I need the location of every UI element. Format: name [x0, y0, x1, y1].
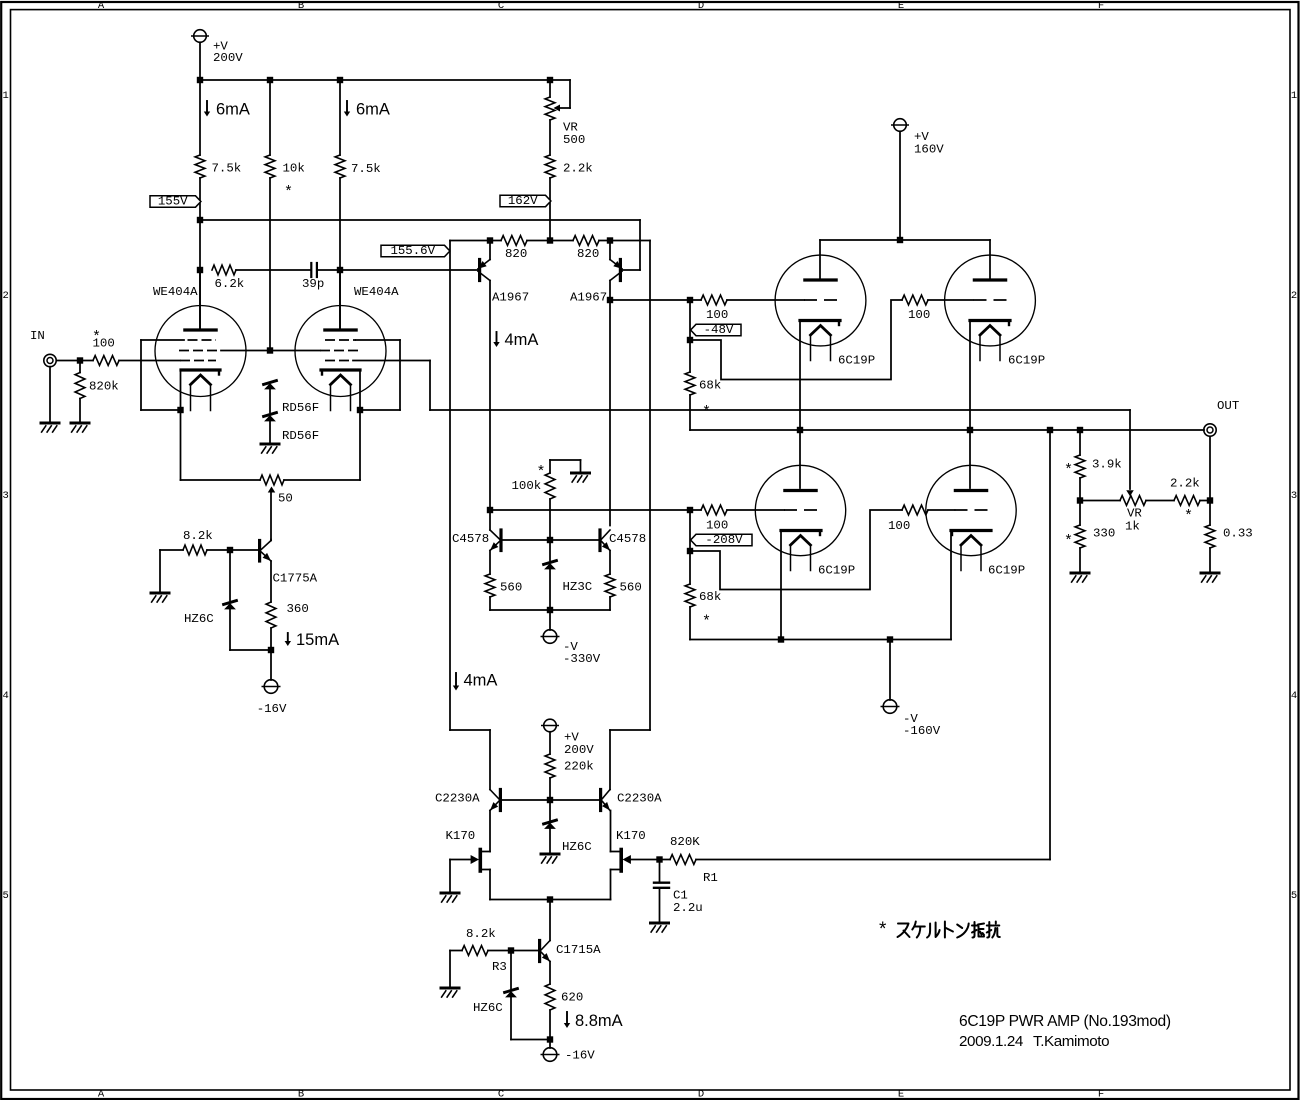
- node junction 690,300: [687, 297, 693, 303]
- resistor 330: [1079, 501, 1081, 526]
- svg-text:8.2k: 8.2k: [466, 927, 496, 941]
- power terminal -16V left: [270, 650, 272, 680]
- svg-text:820: 820: [505, 247, 527, 261]
- node junction at 550,80: [547, 77, 553, 83]
- tube1 grid g1 row: [180, 360, 216, 362]
- wire +160V plate rail: [820, 239, 990, 241]
- svg-text:100: 100: [888, 519, 910, 533]
- wire +200V rail: [200, 79, 550, 81]
- resistor 7.5k right: [335, 155, 345, 178]
- ground under C1: [651, 922, 669, 925]
- wire upper-right cathode to output node: [969, 322, 971, 430]
- svg-text:68k: 68k: [699, 590, 721, 604]
- wire emitter row y=240: [450, 240, 501, 242]
- node junction 550,899: [547, 896, 553, 902]
- node junction 550,1039: [547, 1036, 553, 1042]
- tube 6C19P upper-right grid: [974, 299, 1007, 301]
- svg-text:*: *: [537, 464, 546, 481]
- feedback line y=410 to VR wiper: [430, 409, 1130, 411]
- svg-text:560: 560: [620, 581, 642, 595]
- transistor A1967 left: [489, 241, 491, 260]
- ground at 820k: [71, 422, 89, 425]
- tube1 g3-cathode bracket: [140, 340, 142, 410]
- wire OUT jack down: [1209, 437, 1211, 526]
- wire A1967 right collector: [609, 281, 611, 526]
- tube2 grid g3 row: [325, 339, 356, 341]
- wire A1967 left collector: [489, 281, 491, 511]
- voltage flag 162V: [500, 195, 551, 206]
- wire 100 to lower-right tube grid: [928, 509, 955, 511]
- svg-text:360: 360: [287, 602, 309, 616]
- svg-text:HZ6C: HZ6C: [562, 840, 592, 854]
- svg-text:*: *: [1184, 508, 1193, 525]
- svg-text:F: F: [1098, 1089, 1104, 1100]
- capacitor C1 2.2u: [659, 860, 661, 882]
- resistor 0.33: [1205, 525, 1215, 548]
- node junction tube1 cathode 180,410: [177, 407, 183, 413]
- tube 6C19P upper-right plate: [989, 240, 991, 278]
- svg-text:6C19P PWR AMP (No.193mod): 6C19P PWR AMP (No.193mod): [959, 1013, 1171, 1030]
- svg-text:4: 4: [2, 690, 8, 702]
- wire zeners to ground: [269, 390, 271, 413]
- svg-text:4: 4: [1291, 690, 1297, 702]
- svg-text:-160V: -160V: [903, 724, 941, 738]
- transistor C4578 left: [489, 510, 491, 530]
- svg-text:2.2k: 2.2k: [1170, 477, 1200, 491]
- svg-text:C4578: C4578: [452, 532, 489, 546]
- tube WE404A right envelope: [295, 306, 386, 397]
- svg-text:A1967: A1967: [492, 291, 529, 305]
- zener RD56F upper: [264, 381, 277, 385]
- node junction 550,800: [547, 797, 553, 803]
- tube 6C19P lower-left plate: [799, 430, 801, 488]
- tube 6C19P lower-right cathode: [951, 529, 991, 532]
- svg-text:15mA: 15mA: [296, 631, 339, 649]
- voltage flag 155V: [150, 196, 201, 207]
- svg-text:C: C: [498, 0, 504, 12]
- ground for 100k: [572, 472, 590, 475]
- node junction 659,859 feedback input: [656, 856, 662, 862]
- resistor 220k: [545, 754, 555, 778]
- zener HZ6C mid: [549, 800, 551, 820]
- power terminal +V 160V: [894, 119, 907, 132]
- voltage flag -48V: [691, 324, 741, 335]
- tube 6C19P upper-right envelope: [945, 255, 1036, 346]
- svg-text:2.2u: 2.2u: [673, 901, 703, 915]
- svg-text:50: 50: [278, 492, 293, 506]
- tube 6C19P lower-right grid: [955, 509, 988, 511]
- transistor C1775A: [258, 541, 261, 562]
- svg-text:HZ3C: HZ3C: [563, 580, 593, 594]
- wire base rail y=800: [502, 799, 599, 801]
- resistor 820 left: [501, 236, 527, 246]
- tube2 grid g1 row: [325, 360, 353, 362]
- output jack OUT: [1204, 424, 1216, 436]
- wire y=510 row from A1967 left collector: [490, 509, 701, 511]
- wire output node to feedback resistor: [1049, 430, 1051, 860]
- svg-text:100: 100: [908, 308, 930, 322]
- transistor A1967 right: [609, 241, 611, 260]
- current annotation 4mA lower: [455, 673, 457, 685]
- wire 100 to upper-left tube grid: [727, 299, 804, 301]
- svg-text:5: 5: [1291, 890, 1297, 902]
- current annotation 8.8mA: [566, 1012, 568, 1023]
- ground for 8.2k lower: [449, 951, 451, 989]
- svg-text:K170: K170: [446, 829, 476, 843]
- wire upper-left cathode to output node: [799, 322, 801, 430]
- svg-text:7.5k: 7.5k: [212, 162, 242, 176]
- power terminal -V -330V: [549, 610, 551, 630]
- node junction 230,550: [227, 547, 233, 553]
- svg-text:D: D: [698, 1089, 704, 1100]
- svg-text:4mA: 4mA: [464, 672, 498, 690]
- svg-text:1k: 1k: [1125, 520, 1140, 534]
- svg-text:3.9k: 3.9k: [1092, 458, 1122, 472]
- tube 6C19P lower-right envelope: [926, 465, 1016, 555]
- tube2 heater: [331, 375, 351, 385]
- svg-text:2: 2: [1291, 290, 1297, 302]
- wire C4578 base rail y=540: [502, 539, 599, 541]
- svg-text:*: *: [702, 614, 711, 631]
- resistor 8.2k tube bias: [160, 549, 183, 551]
- svg-text:620: 620: [561, 991, 583, 1005]
- svg-text:IN: IN: [30, 329, 45, 343]
- svg-text:C: C: [498, 1089, 504, 1100]
- svg-text:155.6V: 155.6V: [390, 244, 435, 258]
- wire K170 sources rail y=899: [489, 870, 491, 900]
- svg-text:39p: 39p: [302, 277, 324, 291]
- resistor 100 lower-left grid: [701, 505, 727, 515]
- node junction 511,950: [508, 947, 514, 953]
- resistor 360: [270, 561, 272, 602]
- wire C2230A right emitter to K170 drain: [610, 811, 612, 852]
- tube1 grid g2 row: [179, 350, 221, 352]
- svg-text:155V: 155V: [158, 195, 188, 209]
- svg-text:-48V: -48V: [704, 323, 734, 337]
- wire to A1967 left base: [340, 269, 478, 271]
- power terminal +V 200V mid: [544, 719, 557, 732]
- svg-text:HZ6C: HZ6C: [473, 1001, 503, 1015]
- svg-text:B: B: [298, 1089, 304, 1100]
- power terminal -V -160V: [889, 640, 891, 701]
- wire -48V node x=690: [689, 300, 691, 372]
- svg-text:2: 2: [2, 290, 8, 302]
- wire C1775A collector from pot: [270, 539, 272, 541]
- wire cathode row y=480: [181, 479, 261, 481]
- svg-text:2009.1.24: 2009.1.24: [959, 1033, 1023, 1050]
- svg-text:*: *: [1064, 533, 1073, 550]
- tube1 plate: [185, 328, 216, 331]
- tube1 grid g3 row: [141, 339, 184, 341]
- wire tube1 cathode down: [180, 372, 182, 481]
- svg-text:820K: 820K: [670, 835, 700, 849]
- resistor 100 input (skeleton): [93, 356, 119, 366]
- svg-text:C1715A: C1715A: [556, 943, 601, 957]
- wire left rail x=450: [449, 241, 451, 731]
- svg-text:3: 3: [1291, 490, 1297, 502]
- svg-text:8.8mA: 8.8mA: [575, 1012, 623, 1030]
- resistor 2.2k upper: [545, 155, 555, 178]
- svg-text:6C19P: 6C19P: [1008, 354, 1045, 368]
- node junction 155V at 200,220: [197, 217, 203, 223]
- voltage flag -208V: [691, 534, 752, 545]
- svg-text:100k: 100k: [512, 479, 542, 493]
- wire bootstrap detour upper: [690, 300, 902, 380]
- node junction 610,300: [607, 297, 613, 303]
- tube 6C19P upper-left plate: [819, 240, 821, 278]
- wire x=550 column: [549, 80, 551, 97]
- svg-text:F: F: [1098, 0, 1104, 12]
- svg-text:10k: 10k: [283, 162, 305, 176]
- transistor C1715A: [549, 900, 551, 941]
- node junction at 200,270: [197, 267, 203, 273]
- svg-text:6mA: 6mA: [356, 101, 390, 119]
- svg-text:3: 3: [2, 490, 8, 502]
- svg-text:WE404A: WE404A: [153, 285, 198, 299]
- resistor 560 right: [609, 551, 611, 575]
- resistor 820K R1 feedback: [670, 855, 696, 865]
- power terminal -16V bottom: [549, 1040, 551, 1049]
- tube2 cathode: [321, 368, 360, 371]
- tube 6C19P upper-right cathode: [970, 319, 1010, 322]
- wire 100k bottom to HZ3C: [549, 499, 551, 540]
- wire -208V node x=690: [689, 510, 691, 584]
- svg-text:0.33: 0.33: [1223, 527, 1253, 541]
- resistor 620: [549, 962, 551, 985]
- transistor C4578 right: [598, 530, 601, 551]
- node junction at 340,270: [337, 267, 343, 273]
- resistor 100 lower-right grid: [902, 505, 928, 515]
- node junction 900,240: [897, 237, 903, 243]
- svg-text:C4578: C4578: [609, 532, 646, 546]
- wire 100 to lower-left tube grid: [727, 509, 784, 511]
- svg-text:B: B: [298, 0, 304, 12]
- ground under HZ6C mid: [541, 853, 559, 856]
- current annotation 15mA: [287, 633, 289, 641]
- node junction 610,240: [607, 237, 613, 243]
- wire bootstrap detour lower: [690, 510, 902, 590]
- svg-text:4mA: 4mA: [505, 331, 539, 349]
- tube 6C19P lower-left cathode: [781, 529, 821, 532]
- tube2 plate: [325, 328, 356, 331]
- svg-text:820k: 820k: [89, 380, 119, 394]
- node junction 271,650: [268, 647, 274, 653]
- zener HZ6C bias1: [229, 550, 231, 601]
- tube 6C19P upper-left envelope: [775, 255, 866, 346]
- node junction 970,430: [967, 427, 973, 433]
- transistor C2230A right: [599, 790, 602, 811]
- zener HZ6C lower: [510, 951, 512, 989]
- svg-text:C2230A: C2230A: [617, 792, 662, 806]
- svg-text:*: *: [702, 404, 711, 421]
- tube1 heater: [191, 375, 211, 385]
- svg-text:820: 820: [577, 247, 599, 261]
- ground for 8.2k: [159, 550, 161, 593]
- svg-text:*: *: [92, 329, 101, 346]
- tube 6C19P lower-left grid: [784, 509, 817, 511]
- input jack IN: [44, 354, 56, 366]
- ground under RD56F: [261, 443, 279, 446]
- wire x=200 column: [199, 80, 201, 155]
- tube 6C19P upper-right heater: [980, 326, 1000, 336]
- node junction tube2 cathode 360,410: [357, 407, 363, 413]
- svg-text:560: 560: [500, 581, 522, 595]
- svg-text:RD56F: RD56F: [282, 429, 319, 443]
- svg-text:2.2k: 2.2k: [563, 162, 593, 176]
- node junction 1210,500: [1207, 497, 1213, 503]
- svg-text:C2230A: C2230A: [435, 792, 480, 806]
- svg-text:1: 1: [1291, 90, 1297, 102]
- wire x=270 column: [269, 80, 271, 155]
- node junction at 270,80: [267, 77, 273, 83]
- svg-text:68k: 68k: [699, 379, 721, 393]
- ground at input jack: [49, 367, 51, 423]
- resistor 100 upper-left grid: [701, 295, 727, 305]
- wire tube2 cathode down: [359, 372, 361, 481]
- tube 6C19P lower-right plate: [969, 430, 971, 488]
- wire input to tube1 grid: [119, 360, 180, 362]
- transistor K170 right: [619, 850, 623, 872]
- zener HZ3C: [549, 540, 551, 561]
- resistor 6.2k: [212, 265, 236, 275]
- tube 6C19P lower-left heater: [791, 536, 811, 546]
- resistor 100k: [545, 473, 555, 499]
- svg-text:HZ6C: HZ6C: [184, 612, 214, 626]
- svg-text:100: 100: [706, 308, 728, 322]
- node junction at 340,80: [337, 77, 343, 83]
- node junction g2 at 270,350: [267, 347, 273, 353]
- node junction 550,540: [547, 537, 553, 543]
- svg-text:6mA: 6mA: [216, 101, 250, 119]
- wire 100k top bracket to ground: [549, 460, 551, 473]
- resistor 8.2k lower: [450, 950, 462, 952]
- tube1 cathode: [181, 368, 220, 371]
- svg-text:WE404A: WE404A: [354, 285, 399, 299]
- svg-text:160V: 160V: [914, 143, 944, 157]
- wire C2230A left emitter to K170 drain: [489, 811, 491, 852]
- svg-text:162V: 162V: [508, 194, 538, 208]
- node junction 1080,430: [1077, 427, 1083, 433]
- svg-text:6C19P: 6C19P: [988, 564, 1025, 578]
- resistor 820 right: [573, 236, 599, 246]
- node junction at 200,80: [197, 77, 203, 83]
- node junction 1080,500: [1077, 497, 1083, 503]
- wire 68k to -160V rail: [689, 607, 691, 640]
- svg-text:VR: VR: [1127, 507, 1142, 521]
- wire pot wiper down: [270, 493, 272, 541]
- resistor 10k: [265, 155, 275, 178]
- svg-text:OUT: OUT: [1217, 399, 1239, 413]
- voltage flag 155.6V: [381, 245, 450, 256]
- tube 6C19P upper-left grid: [804, 299, 837, 301]
- tube WE404A left envelope: [155, 306, 246, 397]
- svg-text:100: 100: [706, 519, 728, 533]
- svg-text:D: D: [698, 0, 704, 12]
- wire left rail elbow to C2230A left: [489, 730, 491, 790]
- svg-text:*: *: [1064, 462, 1073, 479]
- wire 68k to output rail y=430: [689, 395, 691, 430]
- node junction 890,639: [887, 636, 893, 642]
- node junction 690,551: [687, 548, 693, 554]
- node junction 690,340: [687, 337, 693, 343]
- svg-text:200V: 200V: [213, 51, 243, 65]
- potentiometer VR 500: [550, 79, 570, 81]
- node junction input 80,360: [77, 357, 83, 363]
- wire right rail elbow to C2230A right: [609, 730, 611, 790]
- svg-text:6C19P: 6C19P: [818, 564, 855, 578]
- node junction 1050,430: [1047, 427, 1053, 433]
- potentiometer VR 1k: [1120, 496, 1146, 506]
- wire lower-left cathode down: [780, 532, 782, 640]
- wire 6.2k to capacitor: [236, 269, 310, 271]
- wire y=610 rail: [490, 609, 610, 611]
- zener RD56F lower: [264, 413, 277, 417]
- svg-text:8.2k: 8.2k: [183, 529, 213, 543]
- wire 155V row to A1967 right base: [200, 219, 640, 221]
- node junction 781,639: [778, 636, 784, 642]
- svg-text:T.Kamimoto: T.Kamimoto: [1033, 1033, 1109, 1050]
- svg-text:1: 1: [2, 90, 8, 102]
- node junction 800,430: [797, 427, 803, 433]
- wire y=300 row: [610, 299, 701, 301]
- wire VR row y=500: [1080, 500, 1120, 502]
- resistor 820k input: [79, 361, 81, 373]
- svg-text:-330V: -330V: [563, 652, 601, 666]
- current annotation 6mA left: [206, 101, 208, 111]
- wire HZ6C lower to junction: [511, 1039, 550, 1041]
- svg-text:*: *: [879, 919, 887, 940]
- resistor 100 upper-right grid: [902, 295, 928, 305]
- svg-text:6.2k: 6.2k: [215, 277, 245, 291]
- svg-text:330: 330: [1093, 527, 1115, 541]
- svg-text:R3: R3: [492, 960, 507, 974]
- svg-text:-16V: -16V: [565, 1049, 595, 1063]
- ground under 330: [1071, 572, 1089, 575]
- svg-text:-208V: -208V: [705, 533, 743, 547]
- resistor 7.5k left: [195, 155, 205, 178]
- node junction 490,510: [487, 507, 493, 513]
- node junction 490,240: [487, 237, 493, 243]
- svg-text:7.5k: 7.5k: [351, 162, 381, 176]
- resistor 3.9k: [1079, 430, 1081, 455]
- wire lower-right cathode to rail: [950, 532, 952, 640]
- svg-text:E: E: [898, 1089, 904, 1100]
- resistor 2.2k output: [1174, 496, 1200, 506]
- svg-text:5: 5: [2, 890, 8, 902]
- svg-text:200V: 200V: [564, 743, 594, 757]
- resistor 560 left: [489, 551, 491, 575]
- tube 6C19P upper-left cathode: [800, 319, 840, 322]
- svg-text:6C19P: 6C19P: [838, 354, 875, 368]
- tube 6C19P upper-left heater: [811, 326, 831, 336]
- svg-text:K170: K170: [616, 829, 646, 843]
- wire input jack to node: [57, 360, 93, 362]
- ground under 0.33: [1201, 572, 1219, 575]
- resistor 68k lower: [685, 584, 695, 607]
- wire 100 to upper-right tube grid: [928, 299, 973, 301]
- tube 6C19P lower-right heater: [961, 536, 981, 546]
- svg-text:R1: R1: [703, 871, 718, 885]
- svg-text:500: 500: [563, 133, 585, 147]
- transistor C2230A left: [499, 790, 502, 811]
- svg-text:A1967: A1967: [570, 291, 607, 305]
- svg-text:*: *: [284, 184, 293, 201]
- resistor 68k upper: [685, 372, 695, 395]
- wire x=340 column: [339, 80, 341, 155]
- transistor K170 left: [478, 850, 482, 872]
- wire right rail x=650: [649, 241, 651, 731]
- power terminal +V 200V: [194, 30, 207, 43]
